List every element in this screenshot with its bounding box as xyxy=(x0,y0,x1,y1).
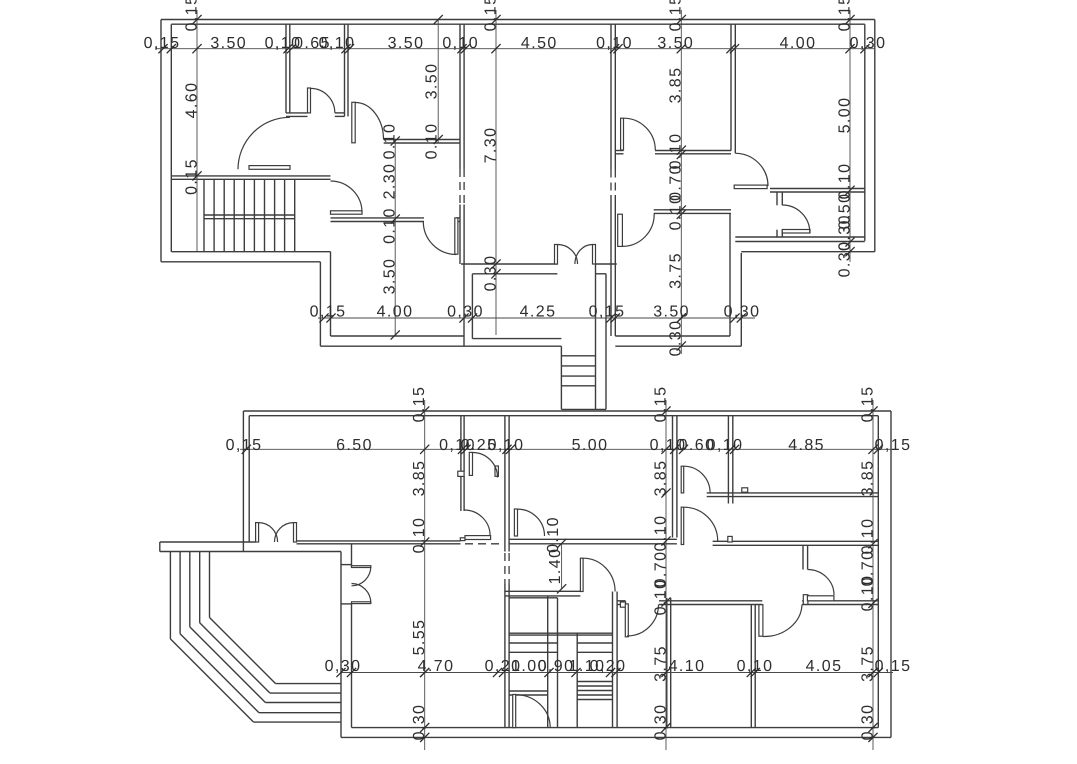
lower-right room right wall inner xyxy=(729,213,731,336)
svg-text:3.85: 3.85 xyxy=(652,460,669,497)
terrace step diagonal xyxy=(170,639,253,722)
stair upper flight edge xyxy=(509,597,557,599)
svg-text:0,15: 0,15 xyxy=(875,658,912,675)
svg-text:0.15: 0.15 xyxy=(183,0,200,31)
svg-text:0,30: 0,30 xyxy=(724,304,761,321)
svg-text:0.15: 0.15 xyxy=(411,386,428,423)
dimension line xyxy=(872,400,874,750)
door H jamb top b xyxy=(781,192,783,205)
hall north wall Lb xyxy=(615,153,623,155)
stair left wall a xyxy=(504,584,506,728)
front wall top R a xyxy=(297,540,352,542)
dashed wall line xyxy=(614,170,616,196)
svg-text:0.10: 0.10 xyxy=(423,123,440,160)
stair tread xyxy=(223,179,225,251)
porch step tread xyxy=(561,385,595,387)
svg-text:0.10: 0.10 xyxy=(545,516,562,553)
door S arc xyxy=(808,570,834,596)
svg-text:0,10: 0,10 xyxy=(319,35,356,52)
wall W2 a xyxy=(344,24,346,116)
wall W4 a upper xyxy=(610,24,612,169)
dashed wall line xyxy=(504,553,506,584)
dashed wall line xyxy=(610,170,612,196)
porch door leaf L xyxy=(555,245,558,265)
wall W4 b lower xyxy=(614,195,616,336)
svg-text:0.10: 0.10 xyxy=(668,133,685,170)
door T wall outer xyxy=(340,552,342,738)
svg-text:0,15: 0,15 xyxy=(875,437,912,454)
lower band top wall M a xyxy=(659,600,762,602)
right room bottom wall b xyxy=(735,241,865,243)
stair tread xyxy=(253,179,255,251)
stair tread xyxy=(294,179,296,251)
svg-text:4.50: 4.50 xyxy=(521,35,558,52)
svg-text:3.75: 3.75 xyxy=(652,645,669,682)
dimension line xyxy=(341,672,893,674)
svg-text:0.30: 0.30 xyxy=(668,320,685,357)
svg-text:3.50: 3.50 xyxy=(657,35,694,52)
dimension line xyxy=(424,400,426,750)
terrace step diagonal xyxy=(190,627,266,703)
door K notch xyxy=(460,538,465,541)
door P leaf xyxy=(580,558,583,591)
bottom plan: top wall inner xyxy=(249,415,878,417)
wall W3 a upper xyxy=(459,24,461,169)
hall wall left a xyxy=(509,538,677,540)
svg-text:5.00: 5.00 xyxy=(836,97,853,134)
dimension line xyxy=(495,10,497,335)
dashed wall line xyxy=(459,169,461,205)
door N arc xyxy=(684,507,718,541)
porch steps left edge xyxy=(560,346,562,409)
dashed wall line xyxy=(508,553,510,584)
svg-text:5.00: 5.00 xyxy=(572,437,609,454)
svg-text:4.70: 4.70 xyxy=(418,658,455,675)
top plan: bottom wall left inner xyxy=(331,335,465,337)
stair tread xyxy=(284,179,286,251)
right section bottom outer xyxy=(741,251,875,253)
vestibule wall1 a xyxy=(460,416,462,472)
svg-text:6.50: 6.50 xyxy=(336,437,373,454)
svg-text:3.50: 3.50 xyxy=(381,258,398,295)
wall stub near door C a xyxy=(456,217,460,219)
terrace step tread xyxy=(276,683,341,685)
door K leaf xyxy=(465,536,491,540)
door T jamb top a xyxy=(341,564,352,566)
bottom wall outer xyxy=(341,736,891,738)
svg-text:3.50: 3.50 xyxy=(423,63,440,100)
door T arc top xyxy=(352,567,371,586)
svg-text:2.30: 2.30 xyxy=(381,163,398,200)
terrace step vertical xyxy=(209,552,211,618)
room divider1 a xyxy=(666,598,668,728)
svg-text:0.30: 0.30 xyxy=(836,241,853,278)
wall W1 a xyxy=(285,24,287,113)
wall WbC a xyxy=(727,416,729,504)
small room top wall a xyxy=(770,188,865,190)
door A arc xyxy=(311,88,335,112)
terrace step tread xyxy=(259,712,341,714)
wall W5 b xyxy=(734,24,736,153)
svg-text:4.00: 4.00 xyxy=(377,304,414,321)
band2 stub xyxy=(742,488,748,492)
door V arc xyxy=(763,605,802,637)
room divider1 b xyxy=(670,598,672,728)
door U jamb xyxy=(620,602,625,607)
terrace step diagonal xyxy=(180,634,259,713)
svg-text:0,15: 0,15 xyxy=(589,304,626,321)
door F leaf xyxy=(621,118,624,150)
door J jamb L xyxy=(458,471,464,476)
dimension line xyxy=(240,448,893,450)
porch door arc R xyxy=(575,245,593,265)
svg-text:0,30: 0,30 xyxy=(447,304,484,321)
vestibule wall2 a xyxy=(504,416,506,552)
center bottom wall top b xyxy=(596,263,617,265)
svg-text:0,30: 0,30 xyxy=(325,658,362,675)
bottom plan: left wall inner xyxy=(248,416,250,542)
bottom wall inner xyxy=(352,727,879,729)
svg-text:0.15: 0.15 xyxy=(836,0,853,31)
stair tread right low xyxy=(577,699,612,701)
stair tread xyxy=(233,179,235,251)
center bottom wall top a xyxy=(461,263,557,265)
closet bottom wall La xyxy=(286,112,308,114)
door J arc xyxy=(473,453,498,478)
svg-text:4.25: 4.25 xyxy=(520,304,557,321)
right room bottom wall a xyxy=(735,236,865,238)
door T leaf top xyxy=(352,566,371,568)
dimension line xyxy=(437,20,439,144)
door Q arc xyxy=(516,695,551,728)
dimension line xyxy=(849,10,851,262)
closet bottom wall Rb xyxy=(335,115,345,117)
stair tread xyxy=(213,179,215,251)
porch door leaf R xyxy=(593,245,596,265)
stair left wall b xyxy=(508,584,510,728)
hall wall right a xyxy=(713,540,879,542)
porch step tread xyxy=(561,375,595,377)
top plan: left wall inner xyxy=(170,24,172,252)
entry door leaf R xyxy=(294,523,297,542)
door S leaf xyxy=(807,596,834,601)
door N leaf xyxy=(681,507,684,544)
door Q leaf xyxy=(513,695,516,728)
stair hall door leaf xyxy=(249,166,290,170)
hall south wall Rb xyxy=(654,212,731,214)
svg-text:4.85: 4.85 xyxy=(788,437,825,454)
terrace step vertical xyxy=(199,552,201,623)
svg-text:4.00: 4.00 xyxy=(780,35,817,52)
stair divider 1 xyxy=(547,596,549,728)
stair top wall a xyxy=(171,175,330,177)
closet bottom wall Ra xyxy=(335,112,345,114)
stair right wall b xyxy=(616,592,618,728)
svg-text:0,10: 0,10 xyxy=(707,437,744,454)
stair landing tread a xyxy=(509,632,612,634)
stair top wall b xyxy=(171,178,330,180)
svg-text:0,30: 0,30 xyxy=(859,704,876,741)
stair tread left xyxy=(509,642,557,644)
wall W3 b upper xyxy=(463,24,465,169)
stair right wall a xyxy=(612,592,614,728)
stair tread xyxy=(243,179,245,251)
porch bottom outer xyxy=(464,345,561,347)
lower-right room bottom inner xyxy=(615,335,730,337)
porch right wall outer xyxy=(605,274,607,410)
terrace step tread xyxy=(254,721,341,723)
door F arc xyxy=(624,118,656,150)
top plan: stair box bottom outer xyxy=(161,261,320,263)
terrace step diagonal xyxy=(210,618,276,684)
entry door arc L xyxy=(259,523,278,542)
vestibule wall2 b xyxy=(508,416,510,552)
svg-text:0.10: 0.10 xyxy=(411,517,428,554)
svg-text:0.10: 0.10 xyxy=(381,207,398,244)
dimension line xyxy=(318,317,755,319)
dashed wall line xyxy=(463,169,465,205)
wall WbC b xyxy=(732,416,734,504)
svg-text:3.85: 3.85 xyxy=(668,67,685,104)
wall W5 a xyxy=(730,24,732,150)
dashed wall line xyxy=(465,543,502,545)
dimension line xyxy=(394,140,396,336)
svg-text:0.10: 0.10 xyxy=(859,518,876,555)
stair tread right xyxy=(577,642,612,644)
dimension line xyxy=(665,400,667,750)
svg-text:3.75: 3.75 xyxy=(668,252,685,289)
door J jamb R xyxy=(495,466,498,476)
top plan: right wall inner xyxy=(864,24,866,241)
svg-text:0,15: 0,15 xyxy=(226,437,263,454)
door U arc xyxy=(627,605,659,637)
svg-text:0.30: 0.30 xyxy=(482,255,499,292)
door N stub bot xyxy=(728,536,732,542)
wall W2 b xyxy=(347,24,349,116)
porch step tread xyxy=(561,355,595,357)
dimension line xyxy=(561,544,563,589)
svg-text:3.50: 3.50 xyxy=(653,304,690,321)
door G arc xyxy=(735,153,768,186)
lower band top wall R b xyxy=(802,604,878,606)
stair tread left low xyxy=(509,694,548,696)
top plan: lower-left room left outer xyxy=(319,262,321,346)
hall wall left b xyxy=(509,543,677,545)
svg-text:0,10: 0,10 xyxy=(442,35,479,52)
svg-text:7.30: 7.30 xyxy=(482,127,499,164)
door B leaf xyxy=(352,102,355,143)
svg-text:0,15: 0,15 xyxy=(310,304,347,321)
door B arc xyxy=(355,103,383,140)
bottom plan: top wall outer xyxy=(243,410,891,412)
wall Wb1 a xyxy=(672,416,674,538)
stair tread left xyxy=(509,651,557,653)
stair tread xyxy=(274,179,276,251)
stair top wall a xyxy=(505,590,581,592)
svg-text:5.55: 5.55 xyxy=(411,619,428,656)
lower band top wall L a xyxy=(617,600,626,602)
top plan: bottom wall left outer xyxy=(320,345,464,347)
svg-text:4.10: 4.10 xyxy=(669,658,706,675)
top plan: stair box bottom inner xyxy=(171,251,330,253)
entry door leaf L xyxy=(256,523,259,542)
door L arc xyxy=(518,509,545,536)
wall W4 a lower xyxy=(610,195,612,336)
svg-text:0.10: 0.10 xyxy=(381,123,398,160)
porch right wall inner xyxy=(595,264,597,409)
wall W1 b xyxy=(289,24,291,113)
door T leaf bottom xyxy=(352,602,371,604)
svg-text:0,30: 0,30 xyxy=(411,704,428,741)
svg-text:0.15: 0.15 xyxy=(652,386,669,423)
vestibule wall1 a lower xyxy=(460,476,462,511)
svg-text:3.85: 3.85 xyxy=(411,460,428,497)
stair top wall b xyxy=(505,595,581,597)
terrace slab top L xyxy=(160,541,256,543)
closet bottom wall Lb xyxy=(286,115,308,117)
lower-right room bottom outer xyxy=(615,345,741,347)
svg-text:3.50: 3.50 xyxy=(388,35,425,52)
door T wall inner lower xyxy=(351,604,353,728)
door U leaf xyxy=(625,604,628,637)
terrace step vertical xyxy=(189,552,191,627)
svg-text:4.05: 4.05 xyxy=(806,658,843,675)
door P arc xyxy=(583,558,615,591)
stair divider 2 xyxy=(557,598,559,728)
door T jamb bot a xyxy=(341,603,352,605)
stair mid rail a xyxy=(204,214,295,216)
terrace step tread xyxy=(270,692,341,694)
band2 bottom wall a xyxy=(707,492,879,494)
wall W4 b upper xyxy=(614,24,616,169)
stair hall door arc xyxy=(238,117,290,169)
door L leaf xyxy=(514,509,517,536)
vestibule wall1 b xyxy=(463,416,465,472)
terrace slab left cap xyxy=(159,542,161,552)
dimension tick marks xyxy=(158,15,883,742)
room top wall a xyxy=(352,540,461,542)
door S wall b xyxy=(807,545,809,570)
porch left wall inner xyxy=(471,274,473,339)
svg-text:0,10: 0,10 xyxy=(737,658,774,675)
wall stub near door C b xyxy=(456,221,460,223)
door D arc xyxy=(331,181,363,213)
door K arc xyxy=(464,510,490,536)
door D leaf xyxy=(331,211,363,214)
porch left wall outer xyxy=(463,264,465,346)
svg-text:0.15: 0.15 xyxy=(859,386,876,423)
center bottom wall lower b xyxy=(596,273,607,275)
wall Wb1 b xyxy=(676,416,678,538)
door F2 arc xyxy=(622,214,654,247)
stair tread right xyxy=(577,651,612,653)
terrace step vertical xyxy=(179,552,181,634)
svg-text:4.60: 4.60 xyxy=(183,82,200,119)
svg-text:0.10: 0.10 xyxy=(652,515,669,552)
room divider2 b xyxy=(754,605,756,728)
door M arc xyxy=(684,466,710,493)
wall W3 b lower xyxy=(463,205,465,265)
top plan: left wall outer xyxy=(160,20,162,262)
terrace slab lower edge xyxy=(160,551,341,553)
vestibule wall1 b lower xyxy=(463,476,465,511)
bottom plan: left wall outer xyxy=(242,411,244,552)
lower band top wall M b xyxy=(659,604,762,606)
stair tread xyxy=(264,179,266,251)
porch step tread xyxy=(561,365,595,367)
room top wall b xyxy=(352,543,461,545)
door A leaf xyxy=(308,88,311,113)
bottom plan: right wall inner xyxy=(877,416,879,728)
stair tread right low xyxy=(577,694,612,696)
door M leaf xyxy=(681,466,684,493)
door C leaf xyxy=(455,218,458,254)
stair landing tread b xyxy=(509,634,612,636)
door C arc xyxy=(423,222,456,255)
bottom plan: right wall outer xyxy=(890,411,892,737)
svg-text:0,30: 0,30 xyxy=(850,35,887,52)
room2 bottom wall b xyxy=(384,142,460,144)
stair tread xyxy=(203,179,205,251)
svg-text:0,20: 0,20 xyxy=(590,658,627,675)
hall north wall La xyxy=(615,150,623,152)
svg-text:0.15: 0.15 xyxy=(668,0,685,31)
door S jamb xyxy=(803,595,808,605)
band2 bottom wall b xyxy=(707,496,879,498)
door H jamb top a xyxy=(776,192,778,205)
terrace step tread xyxy=(265,702,341,704)
wall W3 a lower xyxy=(459,205,461,265)
door H jamb bot a xyxy=(776,230,778,237)
svg-text:0,30: 0,30 xyxy=(652,704,669,741)
lower band top wall R a xyxy=(802,600,878,602)
top plan: top wall inner xyxy=(171,23,865,25)
dimension line xyxy=(196,10,198,252)
svg-text:0.15: 0.15 xyxy=(183,158,200,195)
stair tread left low xyxy=(509,690,548,692)
svg-text:0,10: 0,10 xyxy=(488,437,525,454)
door J leaf xyxy=(469,452,472,475)
svg-text:3.50: 3.50 xyxy=(210,35,247,52)
room2 bottom wall a xyxy=(384,139,460,141)
porch door arc L xyxy=(558,245,578,265)
stair mid rail b xyxy=(204,218,295,220)
top plan: right wall outer xyxy=(874,20,876,252)
svg-text:0.15: 0.15 xyxy=(482,0,499,31)
dimension line xyxy=(680,10,682,354)
dimension line xyxy=(155,48,875,50)
svg-text:0.10: 0.10 xyxy=(668,194,685,231)
center bottom wall lower a xyxy=(472,273,557,275)
stair tread right low xyxy=(577,681,612,683)
door H arc xyxy=(782,205,810,233)
svg-text:1.40: 1.40 xyxy=(547,548,564,585)
hall south-left wall b xyxy=(331,221,425,223)
door S wall a xyxy=(802,545,804,570)
terrace step vertical xyxy=(169,552,171,639)
top plan: top wall outer xyxy=(161,19,875,21)
hall wall right b xyxy=(713,544,879,546)
door G leaf xyxy=(734,185,767,189)
svg-text:3.75: 3.75 xyxy=(859,645,876,682)
svg-text:0,15: 0,15 xyxy=(144,35,181,52)
door T wall inner upper xyxy=(351,545,353,567)
svg-text:3.85: 3.85 xyxy=(859,460,876,497)
stair tread right low xyxy=(577,685,612,687)
door T arc bottom xyxy=(352,584,371,603)
svg-text:0,10: 0,10 xyxy=(596,35,633,52)
small room top wall b xyxy=(770,191,865,193)
